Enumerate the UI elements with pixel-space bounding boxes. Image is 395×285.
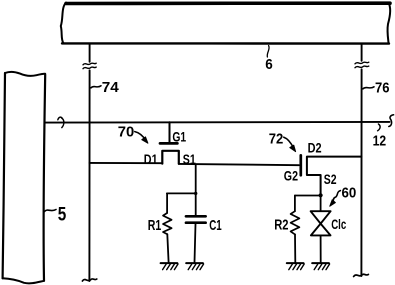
svg-text:72: 72 xyxy=(269,131,284,148)
arrow leader from 72 to gate xyxy=(284,137,294,148)
resistor R2 zigzag xyxy=(291,211,300,234)
transistor 70 gate bar xyxy=(160,142,177,145)
wire 76 break tildes xyxy=(355,62,369,64)
svg-text:C1: C1 xyxy=(209,217,222,234)
gate row wire 12 xyxy=(45,121,389,124)
squiggle arrow from 60 to Clc xyxy=(332,191,340,203)
break mark on row wire near bar 5 xyxy=(58,117,62,120)
svg-text:S2: S2 xyxy=(324,171,337,187)
svg-text:74: 74 xyxy=(102,79,120,96)
arrow leader from 70 to gate xyxy=(135,132,146,141)
wire S1 to gate G2 xyxy=(179,164,299,165)
svg-text:D1: D1 xyxy=(144,151,158,167)
svg-text:76: 76 xyxy=(375,80,390,97)
select bar 5 top edge xyxy=(5,72,45,76)
Clc lower wire xyxy=(320,235,322,262)
ground under R2 xyxy=(287,262,304,264)
wire 74 lower segment xyxy=(88,70,90,281)
break squiggle at right end of row wire 12 xyxy=(389,115,394,127)
select bar 5 right line xyxy=(44,75,46,281)
capacitor C1 lower wire xyxy=(195,224,196,262)
ground under R1 xyxy=(161,262,178,264)
svg-text:Clc: Clc xyxy=(331,216,346,232)
storage node vertical wire xyxy=(195,165,197,193)
junction dot at S2 node xyxy=(319,193,323,197)
svg-text:G2: G2 xyxy=(284,167,298,183)
data bus 6 top line xyxy=(66,1,390,5)
data bus 6 bottom line xyxy=(62,42,389,45)
ground under C1 xyxy=(186,262,203,264)
svg-text:6: 6 xyxy=(265,56,273,73)
wire 76 upper segment xyxy=(361,44,363,61)
transistor 72 gate bar G2 xyxy=(299,155,302,175)
liquid crystal cell Clc upper wire xyxy=(320,196,322,212)
leader tilde for label 5 xyxy=(45,210,57,212)
resistor R1 upper wire xyxy=(166,193,168,213)
Clc bottom triangle xyxy=(311,224,331,236)
svg-text:G1: G1 xyxy=(172,128,186,144)
wire 76 lower segment xyxy=(360,69,362,276)
svg-text:5: 5 xyxy=(58,205,67,226)
wire 74 upper segment xyxy=(89,44,91,62)
svg-text:12: 12 xyxy=(373,133,387,150)
data bus 6 right end xyxy=(387,3,390,44)
resistor R2 lower wire xyxy=(294,234,296,262)
junction dot at node xyxy=(194,192,197,195)
svg-text:S1: S1 xyxy=(183,151,196,167)
leader curl for label 12 xyxy=(378,124,381,131)
capacitor C1 upper wire xyxy=(195,193,197,215)
resistor R1 zigzag xyxy=(163,213,172,234)
select bar 5 left line xyxy=(3,73,5,278)
transistor 72 channel with D2 and S2 arms xyxy=(307,157,362,196)
Clc top triangle xyxy=(311,211,331,223)
svg-text:60: 60 xyxy=(342,185,357,202)
wire D1 to wire 74 xyxy=(90,162,163,164)
select bar 5 bottom edge xyxy=(3,278,44,283)
wire 74 break tildes xyxy=(83,63,96,65)
transistor 70 gate wire xyxy=(169,122,171,142)
svg-text:R2: R2 xyxy=(274,216,288,233)
transistor 70 channel staple D1-S1 xyxy=(162,151,179,164)
leader tilde for label 74 xyxy=(91,86,101,88)
capacitor C1 plates xyxy=(186,215,206,218)
ground under Clc xyxy=(312,262,329,264)
data bus 6 left end xyxy=(61,3,66,44)
resistor R2 upper wire xyxy=(294,196,296,212)
wire from node to R1 xyxy=(167,192,196,194)
wire 76 bottom break tilde xyxy=(354,274,369,276)
leader tilde for label 76 xyxy=(363,87,374,89)
resistor R1 lower wire xyxy=(167,234,168,262)
wire 74 bottom break tilde xyxy=(82,279,96,281)
leader for label 6 xyxy=(267,46,269,57)
svg-text:70: 70 xyxy=(118,123,135,140)
svg-text:D2: D2 xyxy=(308,139,322,155)
wire from S2 node to R2 xyxy=(295,195,321,197)
svg-text:R1: R1 xyxy=(148,217,162,234)
